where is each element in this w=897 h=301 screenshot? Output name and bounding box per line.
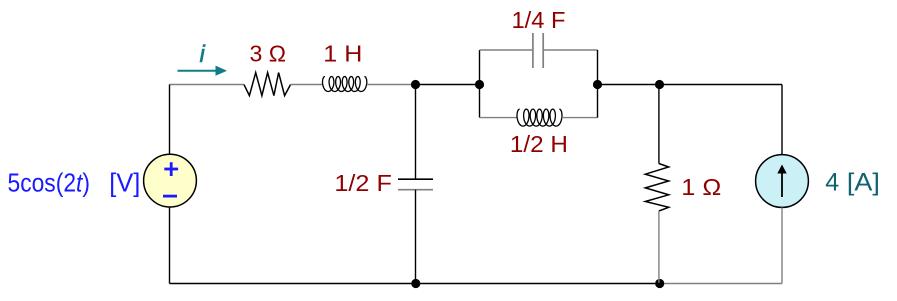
bottom branch left lead (480, 117, 518, 119)
wire bottom left (source corner to node F) (170, 283, 660, 285)
wire right vertical top (781, 85, 783, 156)
resistor 3 ohm (244, 73, 291, 96)
wire top-left horizontal (source corner to R) (170, 84, 245, 86)
node A (411, 80, 420, 89)
capacitor 1/2 F upper lead (415, 85, 417, 180)
svg-text:1 H: 1 H (323, 41, 362, 67)
node C (593, 80, 602, 89)
capacitor 1/4 F top branch left lead (480, 49, 533, 51)
label 1/2 F (334, 170, 392, 196)
voltage source plus sign (164, 162, 178, 176)
resistor 1 ohm branch upper lead (658, 85, 660, 164)
current label i (200, 41, 206, 68)
bottom branch right lead (562, 117, 598, 119)
label 1 ohm (681, 174, 721, 200)
capacitor 1/4 F plates (533, 33, 543, 68)
svg-text:4: 4 (825, 169, 839, 197)
wire between R and L (291, 84, 323, 86)
wire L to node A (367, 84, 416, 86)
wire node A to node B (416, 84, 480, 86)
node B (475, 80, 484, 89)
label [V] (109, 167, 140, 197)
svg-text:[V]: [V] (109, 167, 140, 197)
label 3 ohm (250, 41, 287, 67)
label 1 H (323, 41, 362, 67)
current source arrow (777, 165, 786, 198)
label 5cos(2t) (8, 168, 91, 198)
label 1/2 H (510, 131, 568, 157)
wire left vertical bottom (source to corner) (169, 207, 171, 284)
label 1/4 F (512, 7, 566, 33)
wire node C to node D (598, 84, 660, 86)
svg-text:i: i (200, 41, 206, 68)
capacitor 1/2 F plates (398, 179, 433, 190)
voltage source minus sign (163, 195, 177, 198)
node E (411, 279, 420, 288)
resistor 1 ohm (645, 164, 668, 212)
inductor 1 H (323, 77, 367, 92)
current direction arrow (178, 66, 228, 76)
svg-text:[A]: [A] (847, 169, 880, 197)
node F (655, 279, 664, 288)
voltage source V1 circle (144, 154, 197, 207)
svg-text:1/4 F: 1/4 F (512, 7, 566, 33)
svg-text:1/2 H: 1/2 H (510, 131, 568, 157)
wire bottom right (corner to node F) (660, 283, 782, 285)
node D (655, 80, 664, 89)
svg-text:5cos(2t): 5cos(2t) (8, 168, 91, 198)
current source I1 circle (756, 155, 809, 208)
svg-text:3 Ω: 3 Ω (250, 41, 287, 67)
svg-text:1/2 F: 1/2 F (334, 170, 392, 196)
capacitor 1/2 F lower lead (415, 190, 417, 284)
capacitor 1/4 F right lead (543, 49, 597, 51)
parallel box right vertical wire (597, 50, 599, 118)
wire node D to top-right corner (660, 84, 783, 86)
svg-text:1 Ω: 1 Ω (681, 174, 721, 200)
wire right vertical bottom (781, 207, 783, 283)
resistor 1 ohm lower lead (658, 211, 660, 284)
inductor 1/2 H (517, 109, 562, 126)
wire left vertical top (corner to source) (169, 85, 171, 156)
label 4 [A] (825, 169, 880, 197)
parallel box left vertical wire (479, 50, 481, 118)
